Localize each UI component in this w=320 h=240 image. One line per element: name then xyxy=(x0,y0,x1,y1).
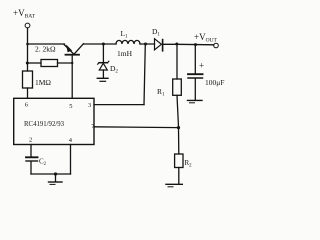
ground under D2 xyxy=(97,78,108,81)
resistor R1 xyxy=(157,44,181,127)
svg-text:5: 5 xyxy=(69,103,72,110)
capacitor C2 xyxy=(26,157,47,174)
svg-text:100μF: 100μF xyxy=(205,78,224,87)
transistor Q1 PNP xyxy=(64,44,84,55)
wire bottom ground run xyxy=(31,173,71,175)
svg-text:L1: L1 xyxy=(121,29,129,40)
svg-text:1MΩ: 1MΩ xyxy=(35,78,51,87)
node +VOUT terminal xyxy=(194,32,218,48)
node junction base-resistor xyxy=(71,62,73,64)
diode D2 xyxy=(98,44,119,78)
ground under C1 xyxy=(188,100,203,102)
node junction ground tap xyxy=(54,172,57,175)
wire pin 3 to diode node xyxy=(94,44,145,105)
node +VBAT terminal xyxy=(13,8,36,28)
node junction at L-D1 xyxy=(144,43,147,46)
svg-text:R2: R2 xyxy=(185,159,193,168)
wire output rail xyxy=(177,43,214,46)
wire pin 2 to C2 xyxy=(30,145,32,157)
resistor R2 xyxy=(175,128,193,184)
svg-text:2: 2 xyxy=(29,137,32,144)
resistor 1M ohm xyxy=(23,71,52,98)
node junction feedback xyxy=(177,126,180,129)
inductor L1 1mH xyxy=(116,29,140,58)
svg-text:R1: R1 xyxy=(157,87,165,98)
node junction at R1 xyxy=(175,43,178,46)
svg-text:1mH: 1mH xyxy=(117,49,133,58)
wire pin 4 stub xyxy=(70,145,72,175)
node junction at VBAT rail xyxy=(26,43,29,46)
wire pin 7 feedback xyxy=(94,126,179,129)
wire collector rail xyxy=(84,43,117,45)
svg-text:+VBAT: +VBAT xyxy=(13,8,36,20)
svg-text:6: 6 xyxy=(25,102,29,109)
svg-text:2. 2kΩ: 2. 2kΩ xyxy=(35,45,56,54)
wire emitter rail xyxy=(28,43,65,45)
wire inductor to D1 xyxy=(140,43,155,45)
node junction at C1 xyxy=(194,43,197,46)
svg-text:+VOUT: +VOUT xyxy=(194,32,218,44)
svg-text:+: + xyxy=(199,61,204,71)
ground under R2 xyxy=(166,184,182,187)
svg-text:C2: C2 xyxy=(39,158,47,167)
capacitor C1 100uF xyxy=(188,45,224,100)
op-amp U1 RC4191 box xyxy=(14,98,94,144)
resistor 2.2k ohm xyxy=(27,45,72,67)
diode D1 xyxy=(152,27,177,51)
svg-text:D2: D2 xyxy=(110,64,118,75)
svg-text:3: 3 xyxy=(88,102,91,109)
svg-text:4: 4 xyxy=(69,137,73,144)
ground under bottom run xyxy=(49,174,63,184)
svg-text:RC4191/92/93: RC4191/92/93 xyxy=(24,121,65,128)
node junction at D2 xyxy=(102,43,105,46)
wire base to pin 5 xyxy=(71,55,73,98)
node junction at resistor row xyxy=(26,62,29,65)
wire VBAT vertical xyxy=(27,28,29,71)
svg-text:D1: D1 xyxy=(152,27,160,38)
